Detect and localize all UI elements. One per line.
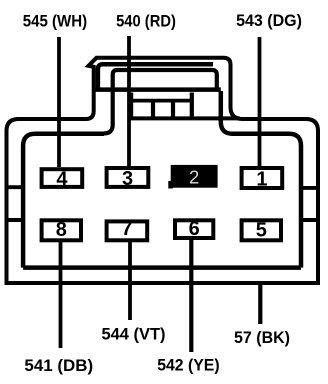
inner shell bottom edge — [23, 265, 301, 270]
svg-text:1: 1 — [256, 169, 267, 191]
svg-text:5: 5 — [256, 220, 267, 242]
svg-text:540 (RD): 540 (RD) — [116, 12, 176, 31]
connector inner shell outline right/top — [221, 91, 301, 268]
svg-text:8: 8 — [56, 219, 67, 241]
right side slot rung upper — [301, 186, 318, 190]
wire 544 from pin 7 — [128, 242, 132, 320]
latch ledge line — [92, 87, 221, 92]
svg-text:544 (VT): 544 (VT) — [102, 325, 166, 344]
svg-text:6: 6 — [189, 218, 200, 240]
pin 4 box — [42, 169, 83, 187]
pin 2 box (filled) — [168, 181, 173, 189]
shelf under tab — [129, 116, 241, 120]
tab cell divider right — [190, 93, 194, 118]
svg-text:2: 2 — [189, 167, 199, 188]
left side slot rung upper — [7, 185, 24, 189]
pin 1 box — [242, 168, 283, 188]
pin 5 box — [242, 220, 281, 240]
svg-text:4: 4 — [56, 168, 68, 190]
svg-text:7: 7 — [121, 218, 132, 240]
pin 7 box — [107, 221, 148, 240]
wire 541 from pin 8 — [59, 242, 63, 348]
connector outer shell outline — [7, 58, 319, 283]
pin 8 box — [42, 220, 81, 240]
right side slot rung lower — [301, 218, 318, 222]
tab cell divider mid-left — [151, 101, 155, 118]
wire 540 to pin 3 — [127, 36, 131, 166]
tab cell divider mid-right — [171, 101, 175, 118]
svg-text:3: 3 — [122, 168, 133, 190]
wire 542 from pin 6 — [189, 240, 193, 352]
svg-text:57 (BK): 57 (BK) — [234, 328, 290, 347]
left side slot rung lower — [7, 218, 24, 222]
svg-text:542 (YE): 542 (YE) — [157, 356, 219, 375]
svg-text:541 (DB): 541 (DB) — [24, 356, 93, 375]
connector inner shell outline left/top — [23, 134, 104, 268]
wire 543 to pin 1 — [258, 37, 262, 166]
tab cell divider left — [129, 93, 133, 118]
pin 6 box — [175, 220, 213, 238]
svg-text:543 (DG): 543 (DG) — [236, 11, 302, 30]
pin 3 box — [107, 168, 149, 187]
latch window rectangle — [104, 70, 217, 133]
wire 545 to pin 4 — [57, 37, 61, 167]
svg-text:545 (WH): 545 (WH) — [23, 12, 88, 31]
tab cell top line — [131, 99, 192, 103]
wire 57 from shell bottom — [258, 283, 262, 324]
latch tab inner wall (upper left hook) — [98, 64, 213, 90]
